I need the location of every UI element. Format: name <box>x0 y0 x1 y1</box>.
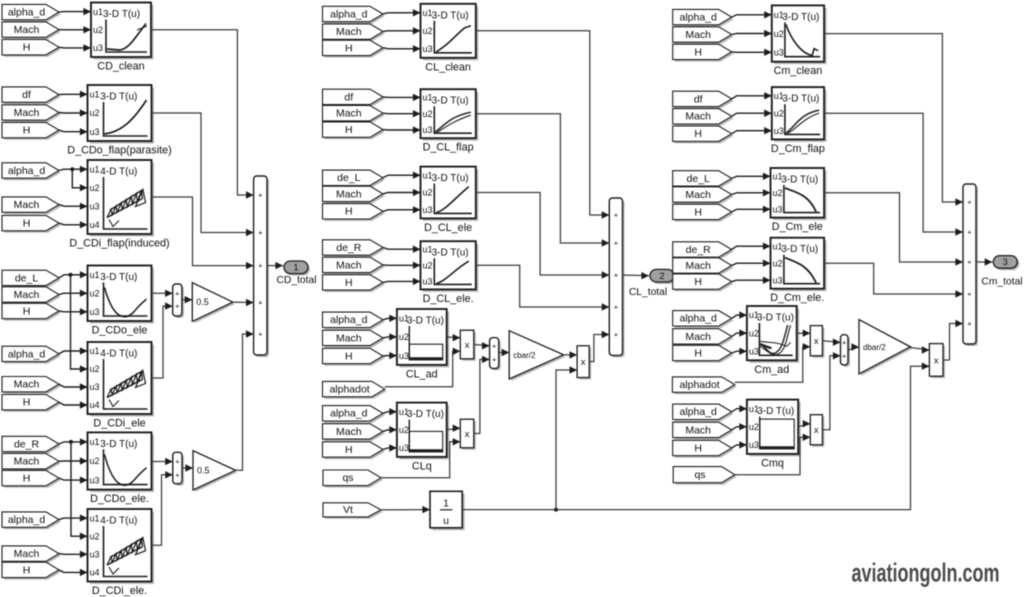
svg-text:+: + <box>258 330 263 339</box>
svg-text:D_CDi_ele: D_CDi_ele <box>93 418 145 430</box>
wire Mach u2 <box>732 30 772 37</box>
svg-text:df: df <box>694 93 703 105</box>
svg-text:u3: u3 <box>749 440 759 450</box>
wire CLq to product <box>447 425 461 432</box>
lookup table CD_clean <box>91 3 154 73</box>
sum block CD elev sum A <box>173 284 184 318</box>
wire Mach u2 <box>732 110 772 118</box>
input tag H (CL g2) <box>323 122 386 139</box>
svg-text:u3: u3 <box>93 43 103 53</box>
wire alpha_d u1 <box>383 9 421 16</box>
svg-text:u2: u2 <box>423 188 433 198</box>
wire de_L to u1 <box>59 271 88 278</box>
input tag H (CD g5) <box>2 395 61 412</box>
input tag df (CL g2) <box>323 89 386 106</box>
svg-text:df: df <box>22 89 31 101</box>
output port CL_total <box>629 269 676 298</box>
svg-text:+: + <box>967 228 972 237</box>
product block Cm q product <box>810 415 824 447</box>
svg-text:CL_ad: CL_ad <box>406 368 438 380</box>
wire Mach u2 <box>383 426 397 433</box>
svg-text:D_CL_ele.: D_CL_ele. <box>423 293 474 305</box>
svg-text:u: u <box>443 515 449 527</box>
wire CL sum to outport <box>623 272 650 279</box>
wire product to sum C <box>474 342 490 349</box>
input tag H (Cm g5) <box>673 345 734 362</box>
wire Mach to u2 <box>59 290 88 297</box>
svg-text:1: 1 <box>293 263 298 273</box>
svg-text:Cm_ad: Cm_ad <box>754 364 789 376</box>
svg-text:Mach: Mach <box>14 379 40 391</box>
svg-text:4-D T(u): 4-D T(u) <box>100 167 137 178</box>
svg-text:de_R: de_R <box>14 438 40 450</box>
svg-text:+: + <box>492 355 497 364</box>
wire alpha_d u1 <box>732 11 772 18</box>
product block Cm dyn product <box>929 344 945 379</box>
input tag df (CD g2) <box>2 87 61 104</box>
wire Cm_clean to sum <box>824 34 963 206</box>
svg-text:+: + <box>614 303 619 312</box>
wire H to u3 <box>59 476 88 483</box>
lookup table D_CDi_ele <box>88 342 155 430</box>
sum block CL total sum <box>609 198 624 357</box>
product block Cm alphadot product <box>810 326 824 358</box>
svg-text:u2: u2 <box>774 29 784 39</box>
wire Mach to u3 <box>59 383 88 390</box>
lookup table CL_clean <box>421 4 479 74</box>
wire alphadot to product <box>385 348 461 387</box>
svg-text:3-D T(u): 3-D T(u) <box>432 248 469 259</box>
sum block CL dyn sum C <box>490 338 501 371</box>
svg-text:3-D T(u): 3-D T(u) <box>432 10 469 21</box>
input tag alpha_d (Cm g6) <box>673 404 734 421</box>
svg-text:u1: u1 <box>773 241 783 251</box>
svg-text:u3: u3 <box>399 443 409 453</box>
gain cbar/2 gain CL <box>509 331 565 381</box>
input tag Mach (CD g7) <box>2 546 61 563</box>
lookup table D_CDo_ele <box>88 266 155 337</box>
svg-text:Mach: Mach <box>336 108 362 120</box>
svg-text:u2: u2 <box>773 188 783 198</box>
input tag H (Cm g1) <box>673 44 734 61</box>
svg-text:+: + <box>175 289 180 298</box>
svg-text:H: H <box>23 564 31 576</box>
input tag alpha_d (CD g1) <box>2 4 61 21</box>
svg-text:+: + <box>967 290 972 299</box>
wire D_CL_flap to sum <box>476 114 610 247</box>
wire sum B to gain <box>182 464 193 471</box>
wire Cmq to product <box>798 420 810 427</box>
input tag Mach (CD g3) <box>2 197 61 214</box>
wire de_R u1 <box>383 246 421 253</box>
svg-text:Mach: Mach <box>14 548 40 560</box>
svg-text:Mach: Mach <box>336 332 362 344</box>
svg-text:u2: u2 <box>90 456 100 466</box>
input tag H (CL g5) <box>323 348 386 365</box>
wire alpha_d u1 <box>383 408 397 415</box>
svg-text:u3: u3 <box>90 550 100 560</box>
wire alpha_d u1 <box>383 315 397 322</box>
wire CD_clean to sum <box>151 30 254 199</box>
wire D_Cm_flap to sum <box>824 113 963 236</box>
wire alpha_d to u1 <box>59 166 88 173</box>
svg-text:H: H <box>23 218 31 230</box>
wire D_Cm_ele to sum <box>824 193 963 266</box>
wire Vt inverse line <box>462 363 929 512</box>
svg-text:u1: u1 <box>774 91 784 101</box>
input tag de_R (CD g6) <box>2 436 61 453</box>
wire gain B to CD sum <box>236 330 254 470</box>
wire Mach u2 <box>383 333 397 340</box>
svg-text:Mach: Mach <box>14 107 40 119</box>
svg-text:D_CDo_flap(parasite): D_CDo_flap(parasite) <box>67 145 171 157</box>
svg-text:Mach: Mach <box>14 199 40 211</box>
wire Mach u2 <box>383 189 421 196</box>
svg-text:u3: u3 <box>423 44 433 54</box>
input tag H (CD g6) <box>2 470 61 487</box>
svg-text:u1: u1 <box>423 170 433 180</box>
svg-text:H: H <box>694 128 702 140</box>
svg-text:3-D T(u): 3-D T(u) <box>781 175 818 186</box>
sum block Cm dyn sum D <box>841 335 851 367</box>
svg-text:u1: u1 <box>90 270 100 280</box>
input tag de_L (Cm g3) <box>673 171 734 188</box>
wire H to u3 <box>59 308 88 315</box>
input tag Mach (Cm g6) <box>673 422 734 439</box>
svg-text:H: H <box>694 46 702 58</box>
svg-text:alpha_d: alpha_d <box>330 314 368 326</box>
product block CL dyn product <box>577 346 591 380</box>
svg-text:+: + <box>967 198 972 207</box>
svg-text:x: x <box>814 425 819 436</box>
wire H to u3 <box>59 128 88 135</box>
input tag de_R (Cm g4) <box>673 242 734 259</box>
input tag alpha_d (Cm g5) <box>673 311 734 328</box>
wire H u3 <box>383 206 421 213</box>
input tag Mach (CD g2) <box>2 105 61 122</box>
input tag Mach (Cm g3) <box>673 187 734 204</box>
svg-text:alpha_d: alpha_d <box>8 165 46 177</box>
svg-text:x: x <box>581 357 586 368</box>
svg-text:Mach: Mach <box>336 188 362 200</box>
wire CL_clean to sum <box>476 31 610 219</box>
svg-text:alpha_d: alpha_d <box>8 7 46 19</box>
wire alpha_d to u1 <box>59 347 88 354</box>
svg-text:D_CL_ele: D_CL_ele <box>424 222 472 234</box>
lookup table D_Cm_ele <box>771 168 827 233</box>
wire Mach u2 <box>732 189 771 196</box>
input tag Mach (CD g4) <box>2 287 61 304</box>
svg-text:+: + <box>842 351 847 360</box>
svg-text:1: 1 <box>443 498 449 510</box>
svg-text:H: H <box>345 444 353 456</box>
input tag df (Cm g2) <box>673 91 734 108</box>
wire de_R to u1 <box>59 438 88 445</box>
wire D_CL_ele to sum <box>476 193 610 279</box>
input tag H (Cm g4) <box>673 274 734 291</box>
sum block CD total sum <box>254 176 269 357</box>
svg-text:Mach: Mach <box>336 426 362 438</box>
svg-text:u2: u2 <box>90 183 100 193</box>
lookup table D_CDo_ele. <box>88 432 155 505</box>
svg-text:u1: u1 <box>774 10 784 20</box>
svg-text:H: H <box>23 125 31 137</box>
svg-text:cbar/2: cbar/2 <box>513 351 536 360</box>
svg-text:H: H <box>23 42 31 54</box>
wire df to u1 <box>59 91 88 98</box>
lookup table D_Cm_flap <box>771 87 827 155</box>
svg-text:alpha_d: alpha_d <box>330 408 368 420</box>
svg-text:alpha_d: alpha_d <box>330 8 368 20</box>
wire qs to product <box>735 434 811 475</box>
svg-text:CD_total: CD_total <box>276 275 316 286</box>
input tag Mach (CL g6) <box>323 424 386 441</box>
wire Mach to u3 <box>59 551 88 558</box>
svg-text:H: H <box>345 206 353 218</box>
math function 1/u <box>430 491 465 530</box>
wire D_Cm_ele. to sum <box>824 263 963 298</box>
svg-text:3-D T(u): 3-D T(u) <box>432 173 469 184</box>
svg-text:qs: qs <box>694 469 705 481</box>
svg-text:3: 3 <box>1003 257 1008 267</box>
input tag H (CD g4) <box>2 303 61 320</box>
svg-text:H: H <box>345 124 353 136</box>
svg-text:Cmq: Cmq <box>761 457 784 469</box>
svg-text:u2: u2 <box>90 108 100 118</box>
svg-text:u3: u3 <box>773 275 783 285</box>
wire de_L u1 <box>383 172 421 179</box>
svg-text:Mach: Mach <box>14 24 40 36</box>
svg-text:+: + <box>967 319 972 328</box>
svg-text:u2: u2 <box>773 258 783 268</box>
svg-text:u2: u2 <box>93 25 103 35</box>
svg-text:u2: u2 <box>399 425 409 435</box>
wire H u3 <box>383 444 397 451</box>
wire D_CDo_ele to sum A <box>152 290 173 297</box>
input tag Mach (Cm g1) <box>673 27 734 44</box>
svg-text:+: + <box>614 239 619 248</box>
svg-text:D_CL_flap: D_CL_flap <box>423 142 474 154</box>
svg-text:qs: qs <box>342 472 353 484</box>
input tag H (CL g6) <box>323 442 386 459</box>
gain 0.5 gain A <box>192 283 235 324</box>
svg-text:3-D T(u): 3-D T(u) <box>782 12 819 23</box>
input tag alpha_d (CD g3) <box>2 163 61 180</box>
wire cbar gain to product <box>564 351 578 358</box>
input tag Mach (Cm g2) <box>673 109 734 126</box>
svg-text:D_CDo_ele.: D_CDo_ele. <box>90 493 149 505</box>
svg-text:u1: u1 <box>423 244 433 254</box>
svg-text:4-D T(u): 4-D T(u) <box>100 349 137 360</box>
wire qs to product <box>381 438 460 478</box>
svg-text:Mach: Mach <box>14 289 40 301</box>
svg-text:Vt: Vt <box>343 504 353 516</box>
svg-text:u4: u4 <box>90 220 100 230</box>
output port CD_total <box>276 261 316 286</box>
wire Mach u2 <box>383 262 421 269</box>
wire Cm dyn product to sum <box>943 320 963 360</box>
svg-text:u3: u3 <box>90 382 100 392</box>
svg-text:u3: u3 <box>749 346 759 356</box>
wire CD sum to outport <box>267 262 283 269</box>
svg-text:3-D T(u): 3-D T(u) <box>407 409 444 420</box>
wire de_R u1 <box>732 243 771 250</box>
wire CL_ad to product <box>447 334 461 341</box>
svg-text:CD_clean: CD_clean <box>97 61 144 73</box>
wire D_CDo_flap to sum <box>152 113 254 236</box>
svg-text:x: x <box>814 336 819 347</box>
lookup table CL_ad <box>397 309 449 380</box>
svg-text:de_L: de_L <box>15 272 39 284</box>
svg-text:3-D T(u): 3-D T(u) <box>432 96 469 107</box>
wire df u1 <box>383 94 421 101</box>
wire H to u4 <box>59 221 88 228</box>
wire ad product to sum D <box>822 339 840 346</box>
svg-text:H: H <box>345 42 353 54</box>
svg-text:u1: u1 <box>423 8 433 18</box>
svg-text:3-D T(u): 3-D T(u) <box>100 272 137 283</box>
wire H u3 <box>383 278 421 285</box>
svg-text:H: H <box>694 442 702 454</box>
sum block CD elev sum B <box>173 452 184 485</box>
input tag alpha_d (CD g5) <box>2 346 61 363</box>
svg-text:+: + <box>175 457 180 466</box>
input tag H (CL g3) <box>323 204 386 221</box>
svg-text:u1: u1 <box>773 172 783 182</box>
wire H u3 <box>732 441 747 448</box>
svg-text:+: + <box>614 211 619 220</box>
svg-text:u3: u3 <box>774 126 784 136</box>
input tag alpha_d (CL g6) <box>323 406 386 423</box>
svg-text:u2: u2 <box>749 328 759 338</box>
svg-text:H: H <box>23 397 31 409</box>
input tag Mach (CD g6) <box>2 454 61 471</box>
svg-text:u2: u2 <box>90 364 100 374</box>
svg-text:3-D T(u): 3-D T(u) <box>757 406 794 417</box>
wire CL dyn product to sum <box>589 331 609 362</box>
input tag Mach (CL g5) <box>323 330 386 347</box>
svg-text:+: + <box>614 271 619 280</box>
input tag H (Cm g6) <box>673 440 734 457</box>
input tag Mach (Cm g4) <box>673 258 734 275</box>
svg-text:Mach: Mach <box>336 26 362 38</box>
svg-text:Cm_clean: Cm_clean <box>774 65 823 77</box>
product block CL alphadot product <box>460 330 476 361</box>
svg-text:u3: u3 <box>399 351 409 361</box>
wire alpha_d to u1 <box>59 514 88 521</box>
svg-text:alpha_d: alpha_d <box>680 313 718 325</box>
wire Mach to u3 <box>59 203 88 210</box>
svg-text:Mach: Mach <box>685 111 711 123</box>
lookup table D_CL_ele. <box>421 241 479 305</box>
wire Mach to u2 <box>59 109 88 116</box>
watermark aviationgoln.com <box>852 558 1000 588</box>
wire dbar gain to product <box>910 346 929 353</box>
wire sum D to dbar gain <box>848 343 859 350</box>
svg-text:D_CDi_flap(induced): D_CDi_flap(induced) <box>69 238 169 250</box>
wire Mach to CD_clean u2 <box>59 26 91 33</box>
svg-text:3-D T(u): 3-D T(u) <box>782 94 819 105</box>
svg-text:u4: u4 <box>90 568 100 578</box>
wire alpha_d branch to u2 <box>70 167 87 191</box>
svg-text:u1: u1 <box>399 407 409 417</box>
svg-text:alphadot: alphadot <box>329 384 369 396</box>
svg-text:3-D T(u): 3-D T(u) <box>100 439 137 450</box>
lookup table D_CDi_flap <box>69 160 169 250</box>
wire sum C to cbar gain <box>499 349 510 356</box>
svg-text:alpha_d: alpha_d <box>680 12 718 24</box>
wire df u1 <box>732 92 772 99</box>
wire H to u4 <box>59 401 88 408</box>
lookup table D_CL_ele <box>421 167 479 234</box>
svg-text:u3: u3 <box>90 307 100 317</box>
wire D_CDo_ele. to sum B <box>152 458 173 465</box>
wire H to u4 <box>59 569 88 576</box>
svg-text:u3: u3 <box>423 205 433 215</box>
input tag Mach (CL g1) <box>323 24 386 41</box>
input tag alpha_d (CL g5) <box>323 312 386 329</box>
svg-text:u1: u1 <box>749 404 759 414</box>
svg-text:+: + <box>258 261 263 270</box>
svg-text:u2: u2 <box>423 109 433 119</box>
wire Mach u2 <box>732 260 771 267</box>
input tag de_L (CD g4) <box>2 270 61 287</box>
product block CL q product <box>460 419 476 450</box>
wire Mach u2 <box>732 329 747 336</box>
output port Cm_total <box>981 256 1022 288</box>
svg-text:+: + <box>175 470 180 479</box>
svg-text:Mach: Mach <box>685 331 711 343</box>
svg-text:alpha_d: alpha_d <box>8 348 46 360</box>
wire alphadot to product <box>735 343 811 382</box>
svg-text:u3: u3 <box>90 201 100 211</box>
wire D_CDi_ele. to sum B <box>152 471 173 545</box>
svg-text:3-D T(u): 3-D T(u) <box>103 9 140 20</box>
wire H to CD_clean u3 <box>59 44 91 51</box>
wire Mach u2 <box>383 27 421 34</box>
svg-text:u2: u2 <box>749 422 759 432</box>
input tag H (Cm g2) <box>673 126 734 143</box>
input tag H (CD g1) <box>2 40 61 57</box>
sum block Cm total sum <box>963 184 978 346</box>
input tag alphadot (Cm) <box>672 377 736 394</box>
wire alpha_d u1 <box>732 311 747 318</box>
wire H u3 <box>383 45 421 52</box>
svg-text:u1: u1 <box>90 346 100 356</box>
wire Cm_ad to product <box>797 330 811 337</box>
svg-text:de_R: de_R <box>686 244 712 256</box>
wire Vt to 1/u <box>381 506 430 513</box>
lookup table Cm_ad <box>747 306 799 376</box>
svg-text:Mach: Mach <box>685 260 711 272</box>
input tag de_R (CL g4) <box>323 240 386 257</box>
svg-text:df: df <box>344 91 353 103</box>
input tag Mach (Cm g5) <box>673 329 734 346</box>
svg-text:CL_clean: CL_clean <box>425 61 471 73</box>
svg-text:+: + <box>492 341 497 350</box>
input tag alphadot (CL) <box>323 381 387 398</box>
lookup table D_CDo_flap <box>67 85 171 157</box>
svg-text:D_CDi_ele.: D_CDi_ele. <box>92 585 147 597</box>
svg-text:u2: u2 <box>423 26 433 36</box>
svg-text:3-D T(u): 3-D T(u) <box>757 313 794 324</box>
input tag de_L (CL g3) <box>323 170 386 187</box>
input tag Mach (CD g1) <box>2 22 61 39</box>
gain dbar/2 gain Cm <box>859 320 912 376</box>
wire D_CDi_ele to sum A <box>152 302 173 378</box>
svg-text:+: + <box>614 330 619 339</box>
wire Cm sum to outport <box>976 258 992 265</box>
